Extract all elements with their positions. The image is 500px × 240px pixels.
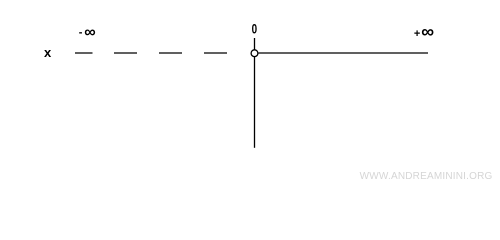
svg-text:x: x [44,45,52,60]
svg-text:0: 0 [252,20,258,36]
svg-text:+: + [414,28,420,40]
svg-text:∞: ∞ [84,24,95,41]
wire dashed segment 4 [204,52,227,54]
wire dashed segment 1 [75,52,93,54]
svg-text:∞: ∞ [421,21,434,41]
svg-text:WWW.ANDREAMININI.ORG: WWW.ANDREAMININI.ORG [360,171,493,182]
wire dashed segment 2 [114,52,137,54]
node open circle at 0 [251,50,258,57]
wire vertical below node 0 [254,57,256,148]
svg-text:-: - [79,27,83,39]
wire dashed segment 3 [159,52,182,54]
wire vertical above node 0 [254,38,256,50]
wire solid horizontal to +infinity [259,52,429,54]
